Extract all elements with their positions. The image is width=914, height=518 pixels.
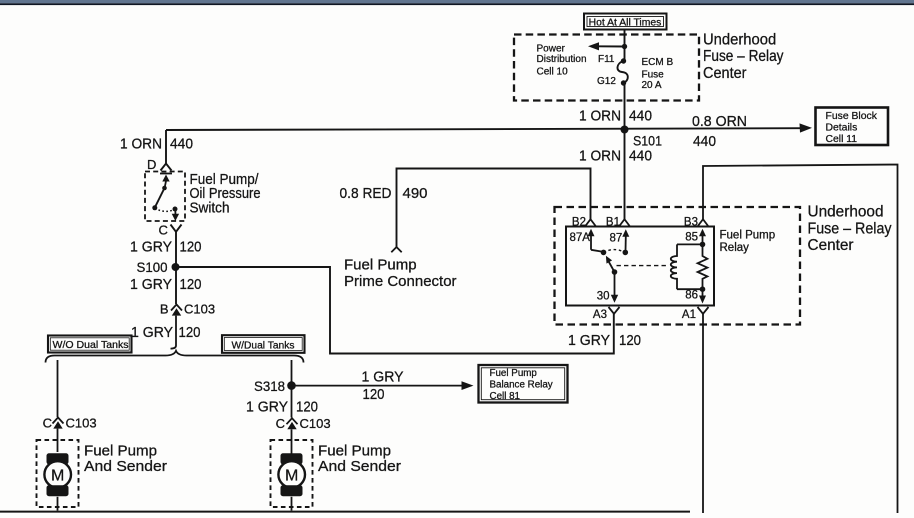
switch dotted travel <box>155 208 175 211</box>
svg-text:0.8 ORN: 0.8 ORN <box>692 113 747 130</box>
tanks option brace <box>46 351 304 363</box>
label Underhood Fuse - Relay Center (relay) <box>808 204 892 255</box>
connector C103 (B) <box>171 305 182 316</box>
relay coil linkage (dashed) <box>617 265 669 267</box>
svg-text:1 GRY: 1 GRY <box>246 398 288 415</box>
label 1 GRY 120 (above S100) <box>130 239 202 256</box>
splice S318 <box>287 381 296 390</box>
label Fuel Pump Prime Connector <box>344 256 457 290</box>
switch contact right <box>173 207 178 212</box>
label 0.8 ORN 440 <box>692 113 747 150</box>
W/Dual Tanks box <box>222 335 305 353</box>
Fuse Block Details Cell 11 box <box>816 108 889 146</box>
svg-text:440: 440 <box>693 133 716 150</box>
label 1 GRY 120 (S318 run) <box>362 369 404 403</box>
svg-text:440: 440 <box>629 148 652 165</box>
switch up arrow <box>162 175 169 188</box>
label 1 GRY 120 (relay A3) <box>568 332 641 349</box>
svg-text:1 GRY: 1 GRY <box>130 276 172 293</box>
svg-text:1 ORN: 1 ORN <box>120 136 162 153</box>
right pump lower terminal block <box>281 485 303 496</box>
connector terminal A1 <box>698 307 709 314</box>
svg-text:C: C <box>159 223 168 238</box>
arrowhead to balance relay <box>462 381 474 390</box>
svg-text:1 GRY: 1 GRY <box>362 369 404 386</box>
right pump motor M <box>278 461 305 488</box>
svg-text:Center: Center <box>808 237 855 254</box>
connector: prime connector open terminal <box>391 247 401 252</box>
svg-text:W/Dual Tanks: W/Dual Tanks <box>232 340 295 351</box>
label 1 GRY 120 (above tanks split) <box>131 324 201 341</box>
svg-text:1 ORN: 1 ORN <box>579 108 621 125</box>
W/O Dual Tanks box <box>48 336 132 353</box>
relay pin 30 arrow <box>611 272 618 303</box>
wire: relay A1 down off-page <box>702 314 704 513</box>
relay coil loop <box>671 244 703 289</box>
switch contact left <box>152 205 157 210</box>
svg-text:Fuel Pump: Fuel Pump <box>344 256 417 273</box>
fuse F11 ECM B symbol <box>617 58 627 85</box>
relay pin 85 arrow <box>699 229 706 245</box>
wire: C103 down to tanks split <box>171 316 177 349</box>
Hot At All Times box <box>584 14 667 30</box>
wire: into left pump <box>57 429 59 452</box>
left pump motor M <box>44 461 71 488</box>
svg-text:20 A: 20 A <box>642 80 662 91</box>
connector C103 (left pump) <box>53 418 64 429</box>
label Fuel Pump Relay <box>720 229 776 254</box>
connector terminal B1 <box>619 219 630 226</box>
svg-text:Hot At All Times: Hot At All Times <box>589 17 662 28</box>
connector terminal B3 <box>698 219 709 226</box>
label Fuel Pump And Sender (right) <box>318 443 401 475</box>
svg-text:F11: F11 <box>598 54 615 65</box>
svg-text:And Sender: And Sender <box>84 459 167 475</box>
arrowhead to Fuse Block Details <box>800 123 813 132</box>
wire: W/Dual branch down to S318 <box>291 360 293 383</box>
svg-text:120: 120 <box>619 332 641 349</box>
svg-text:85: 85 <box>685 232 698 244</box>
connector terminal A3 <box>609 307 620 314</box>
svg-text:ECM B: ECM B <box>642 57 674 68</box>
svg-text:87A: 87A <box>570 232 591 244</box>
connector terminal D <box>161 164 172 171</box>
wire: W/O branch down <box>57 360 59 417</box>
label 1 ORN 440 (above main line) <box>579 108 652 125</box>
svg-text:Prime Connector: Prime Connector <box>344 273 457 290</box>
coil node top <box>700 242 706 248</box>
svg-text:S101: S101 <box>633 132 662 148</box>
svg-text:87: 87 <box>610 233 623 245</box>
wire: S100 over to relay A3 <box>176 267 614 354</box>
svg-text:S318: S318 <box>254 378 285 394</box>
svg-text:Cell 81: Cell 81 <box>490 391 521 402</box>
svg-text:120: 120 <box>180 239 202 256</box>
svg-text:0.8 RED: 0.8 RED <box>340 185 392 202</box>
left pump lower terminal block <box>47 485 69 496</box>
svg-text:1 GRY: 1 GRY <box>130 239 172 256</box>
switch pivot contact <box>162 186 167 191</box>
relay pin 87A arrow <box>588 229 603 252</box>
junction dot above fuse <box>622 44 627 49</box>
svg-text:Switch: Switch <box>190 200 230 217</box>
switch top terminal bar <box>160 173 172 175</box>
header bar <box>0 0 914 5</box>
wire: into right pump <box>291 429 293 453</box>
svg-text:Details: Details <box>826 122 858 133</box>
svg-text:Fuel Pump: Fuel Pump <box>84 443 157 459</box>
connector C103 (right pump) <box>287 418 298 429</box>
svg-text:C103: C103 <box>184 302 215 317</box>
svg-text:D: D <box>147 157 156 172</box>
svg-text:Fuse: Fuse <box>642 70 665 81</box>
svg-text:Center: Center <box>703 65 747 82</box>
svg-text:120: 120 <box>363 386 385 403</box>
relay pin 87 arrow <box>622 229 629 252</box>
wire: below right pump <box>291 497 293 511</box>
Fuel Pump Balance Relay Cell 81 box <box>479 365 568 403</box>
label 1 GRY 120 (below S318) <box>246 398 318 415</box>
svg-text:1 GRY: 1 GRY <box>131 324 173 341</box>
svg-text:490: 490 <box>403 185 428 202</box>
svg-text:86: 86 <box>685 290 698 302</box>
connector terminal B2 <box>585 219 596 226</box>
wire: fuel pump prime connector 0.8 RED 490 <box>397 169 591 248</box>
svg-text:A3: A3 <box>593 309 607 321</box>
wire: S101 down to relay B1 <box>624 130 626 220</box>
svg-text:Fuel Pump: Fuel Pump <box>720 229 776 241</box>
svg-text:C: C <box>276 416 285 431</box>
svg-text:Underhood: Underhood <box>808 204 884 221</box>
dashed box: underhood fuse-relay center (relay) <box>555 207 801 325</box>
fuel pump and sender left (dashed box) <box>37 440 79 507</box>
svg-text:Fuse Block: Fuse Block <box>826 111 878 122</box>
svg-text:B: B <box>160 302 169 317</box>
relay pin 86 arrow <box>699 289 706 303</box>
svg-text:S100: S100 <box>137 259 168 275</box>
svg-text:Fuse – Relay: Fuse – Relay <box>703 48 784 65</box>
right pump upper terminal block <box>281 453 303 464</box>
label 1 ORN 440 (left, at switch) <box>120 136 193 153</box>
switch blade <box>155 188 165 208</box>
label 1 GRY 120 (below S100) <box>130 276 202 293</box>
wire: main 1 ORN 440 horizontal <box>166 128 803 130</box>
label Underhood Fuse - Relay Center (top) <box>703 31 784 82</box>
svg-text:And Sender: And Sender <box>318 459 401 475</box>
switch down arrow <box>172 210 179 221</box>
wire: relay B3 up over to right edge and down off-page <box>703 165 898 514</box>
svg-text:440: 440 <box>170 136 193 153</box>
svg-text:120: 120 <box>296 398 318 415</box>
svg-text:Underhood: Underhood <box>703 31 776 48</box>
label 1 ORN 440 (below S101) <box>579 148 652 165</box>
left pump upper terminal block <box>47 453 69 464</box>
svg-text:G12: G12 <box>597 76 616 87</box>
wire: below left pump <box>57 497 59 511</box>
wire: Hot At All Times down to S101 <box>624 30 626 130</box>
wire: S318 to balance relay <box>292 385 464 387</box>
svg-text:120: 120 <box>180 276 202 293</box>
footer rule <box>0 511 690 513</box>
relay coil resistor <box>698 244 708 289</box>
label Power Distribution Cell 10 <box>537 44 587 78</box>
label 0.8 RED 490 <box>340 185 428 202</box>
svg-text:Fuse – Relay: Fuse – Relay <box>808 220 892 237</box>
svg-text:440: 440 <box>629 108 652 125</box>
svg-text:C103: C103 <box>300 416 331 431</box>
svg-text:M: M <box>285 467 298 484</box>
svg-text:120: 120 <box>179 324 201 341</box>
fuel pump relay box <box>566 227 714 306</box>
label Fuel Pump/ Oil Pressure Switch <box>190 171 261 217</box>
relay pivot dot <box>612 269 618 275</box>
svg-text:W/O Dual Tanks: W/O Dual Tanks <box>53 340 129 351</box>
svg-text:30: 30 <box>597 290 610 302</box>
svg-text:C103: C103 <box>66 415 97 430</box>
svg-text:Relay: Relay <box>720 242 750 254</box>
svg-text:M: M <box>51 467 64 484</box>
svg-text:1 GRY: 1 GRY <box>568 332 610 349</box>
fuel pump and sender right (dashed box) <box>271 440 313 507</box>
svg-text:C: C <box>43 415 52 430</box>
label ECM B Fuse 20 A <box>642 57 674 91</box>
svg-text:1 ORN: 1 ORN <box>579 148 621 165</box>
svg-text:Distribution: Distribution <box>537 54 587 65</box>
svg-text:A1: A1 <box>682 309 696 321</box>
relay contact 87 dot <box>623 250 629 256</box>
arrow to Power Distribution <box>588 42 625 50</box>
relay contact 87A dot <box>601 250 607 256</box>
svg-text:Cell 10: Cell 10 <box>537 67 569 78</box>
fuel pump / oil pressure switch (dashed box) <box>145 172 185 222</box>
splice S100 <box>172 263 180 271</box>
svg-text:Cell 11: Cell 11 <box>826 134 858 145</box>
wire: C down to S100 <box>175 232 177 264</box>
coil node bottom <box>700 286 706 292</box>
splice S101 <box>621 126 629 134</box>
wire: main line down to switch terminal D <box>165 130 167 164</box>
relay switch travel (dashed arc) <box>604 250 626 253</box>
label Fuel Pump And Sender (left) <box>84 443 167 475</box>
relay switch blade arrow <box>606 256 615 272</box>
svg-text:Fuel Pump: Fuel Pump <box>490 368 538 379</box>
wire: S318 down <box>291 386 293 418</box>
svg-text:Fuel Pump: Fuel Pump <box>318 443 391 459</box>
connector terminal C <box>171 225 182 232</box>
wire: S100 down to C103 <box>175 267 177 304</box>
dashed box: underhood fuse-relay center (top) <box>514 35 699 101</box>
svg-text:Balance Relay: Balance Relay <box>490 380 553 391</box>
svg-text:Power: Power <box>537 44 566 55</box>
